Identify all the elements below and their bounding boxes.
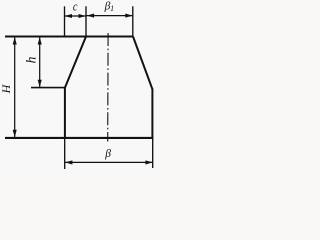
extension line v1 right — [132, 6, 134, 36]
right side — [151, 89, 153, 139]
extension line c right / top-left corner — [85, 6, 87, 36]
svg-text:h: h — [24, 56, 39, 63]
centerline dash-dot — [107, 33, 109, 142]
arrow v1 left — [87, 14, 95, 18]
svg-text:1: 1 — [110, 4, 114, 13]
right slope — [133, 37, 152, 90]
arrow c left — [65, 14, 73, 18]
svg-text:H: H — [0, 83, 13, 94]
arrow v left — [65, 160, 73, 164]
svg-text:β: β — [104, 148, 111, 160]
arrow H bottom — [13, 130, 17, 138]
dim line v (bottom) — [65, 161, 153, 163]
shoulder extension line — [31, 87, 66, 89]
arrow c right — [79, 14, 87, 18]
dim line c — [65, 15, 87, 17]
right extension below (for dim v) — [152, 138, 154, 168]
svg-text:c: c — [73, 0, 78, 14]
extension line c left — [64, 6, 66, 36]
arrow h bottom — [38, 80, 42, 88]
dim line v1 — [86, 15, 133, 17]
bottom edge + extension line — [5, 137, 153, 139]
left side — [64, 87, 66, 138]
arrow v right — [145, 160, 153, 164]
arrow v1 right — [125, 14, 133, 18]
dim line H — [14, 37, 16, 139]
top edge + extension line — [5, 36, 133, 38]
left slope — [65, 37, 86, 88]
arrow h top — [38, 37, 42, 45]
arrow H top — [13, 37, 17, 45]
dim line h — [39, 37, 41, 88]
left extension below (for dim v) — [64, 138, 66, 169]
